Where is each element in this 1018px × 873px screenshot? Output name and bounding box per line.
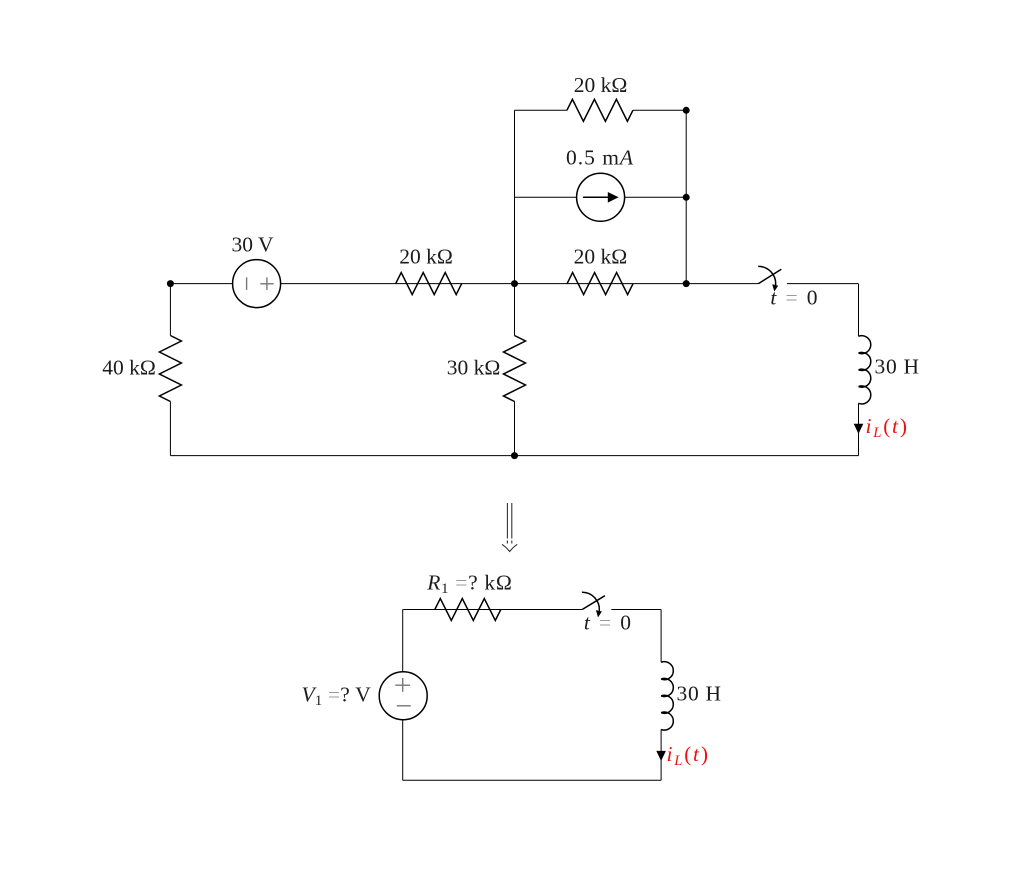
svg-text:30 H: 30 H xyxy=(875,354,920,378)
svg-text:t = 0: t = 0 xyxy=(770,285,819,309)
svg-text:iL(t): iL(t) xyxy=(667,742,710,769)
svg-text:0.5 mA: 0.5 mA xyxy=(566,146,634,170)
svg-text:20 kΩ: 20 kΩ xyxy=(399,244,453,268)
svg-text:R1 =? kΩ: R1 =? kΩ xyxy=(426,571,512,598)
svg-text:t = 0: t = 0 xyxy=(584,611,633,635)
svg-text:30 H: 30 H xyxy=(677,681,722,705)
svg-text:20 kΩ: 20 kΩ xyxy=(574,73,628,97)
svg-text:30 V: 30 V xyxy=(231,233,273,257)
svg-text:20 kΩ: 20 kΩ xyxy=(574,244,628,268)
svg-text:V1 =? V: V1 =? V xyxy=(302,682,372,709)
svg-text:30 kΩ: 30 kΩ xyxy=(447,356,501,380)
svg-text:40 kΩ: 40 kΩ xyxy=(102,356,156,380)
svg-text:iL(t): iL(t) xyxy=(866,414,909,441)
